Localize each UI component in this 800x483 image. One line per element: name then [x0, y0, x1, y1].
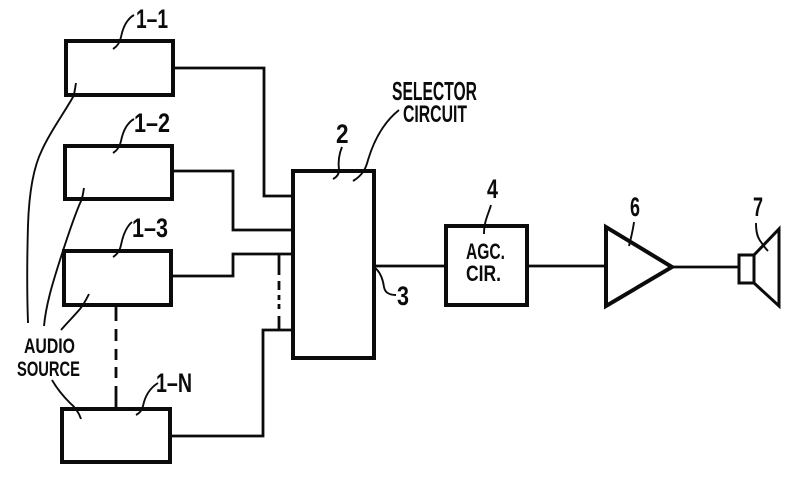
svg-text:SOURCE: SOURCE	[17, 357, 80, 381]
svg-text:1–2: 1–2	[134, 108, 170, 138]
svg-text:3: 3	[397, 281, 409, 311]
svg-text:1–1: 1–1	[136, 4, 168, 34]
svg-text:4: 4	[487, 174, 498, 204]
svg-text:CIRCUIT: CIRCUIT	[403, 101, 467, 128]
svg-text:CIR.: CIR.	[466, 261, 501, 286]
svg-text:6: 6	[630, 192, 640, 222]
svg-text:2: 2	[336, 119, 349, 149]
svg-text:1–N: 1–N	[156, 368, 192, 398]
svg-text:1–3: 1–3	[132, 213, 168, 243]
svg-text:7: 7	[753, 192, 763, 222]
svg-text:AUDIO: AUDIO	[24, 334, 75, 358]
